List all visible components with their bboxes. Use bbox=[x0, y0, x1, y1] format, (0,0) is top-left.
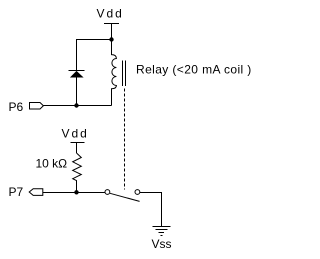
wire (diode branch lower lead) bbox=[76, 77, 78, 106]
diode D1 clamp (cathode bar) bbox=[69, 70, 85, 72]
svg-text:Relay (<20 mA coil ): Relay (<20 mA coil ) bbox=[136, 63, 252, 77]
mechanical link (dashed) between coil and contact bbox=[124, 89, 126, 190]
svg-text:10 kΩ: 10 kΩ bbox=[36, 157, 68, 171]
svg-text:P7: P7 bbox=[9, 185, 24, 199]
junction dot (top Vdd node) bbox=[109, 37, 113, 41]
relay coil L1 bbox=[112, 39, 117, 106]
svg-text:P6: P6 bbox=[9, 100, 24, 114]
svg-text:Vdd: Vdd bbox=[62, 127, 89, 141]
wire (top Vdd node to diode branch) bbox=[76, 39, 112, 41]
resistor R1 (zigzag) bbox=[73, 153, 82, 192]
power symbol Vdd (pull-up supply) bbox=[62, 127, 89, 154]
wire (right contact to ground drop) bbox=[140, 193, 162, 227]
svg-text:Vdd: Vdd bbox=[97, 7, 124, 21]
wire (diode branch upper lead) bbox=[76, 39, 78, 71]
wire (P6 to relay coil) bbox=[43, 105, 111, 107]
wire (P7 to switch) bbox=[43, 192, 105, 194]
pin connector P6 (points right) bbox=[30, 103, 44, 110]
switch blade (normally open) bbox=[110, 193, 140, 201]
junction dot (P6 node) bbox=[74, 103, 78, 107]
switch contact terminal (right, open circle) bbox=[135, 190, 140, 195]
svg-text:Vss: Vss bbox=[152, 237, 172, 251]
power symbol Vdd (relay supply) bbox=[97, 7, 124, 40]
ground symbol (Vss) bbox=[153, 227, 171, 236]
relay core bbox=[123, 61, 126, 87]
junction dot (P7 node) bbox=[74, 190, 78, 194]
switch contact terminal (left, open circle) bbox=[105, 190, 110, 195]
diode D1 clamp (anode triangle) bbox=[70, 71, 84, 78]
pin connector P7 (points left) bbox=[29, 189, 43, 196]
